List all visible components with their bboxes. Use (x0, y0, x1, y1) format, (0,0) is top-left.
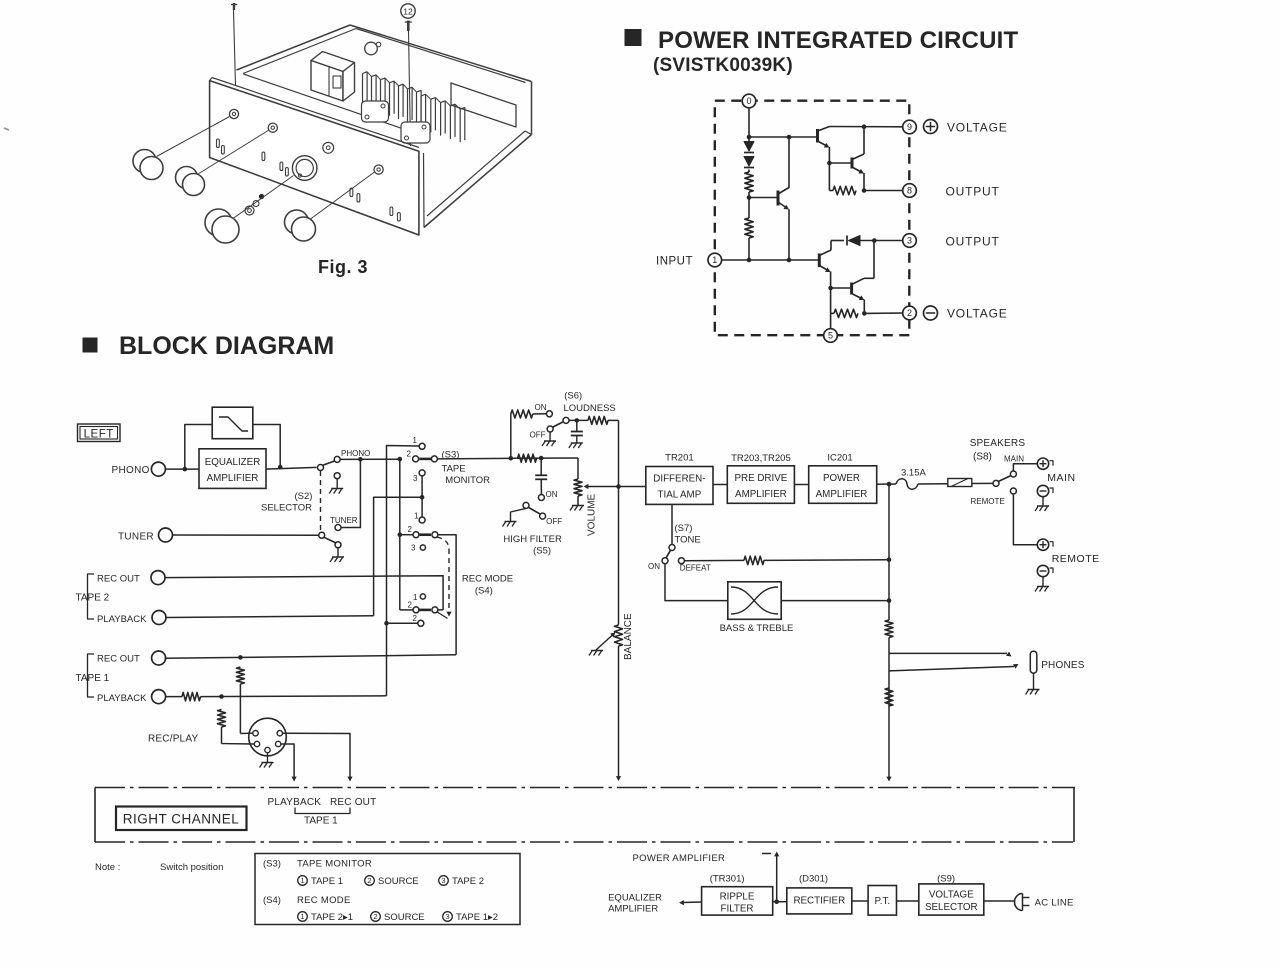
svg-text:SELECTOR: SELECTOR (261, 503, 312, 514)
svg-text:VOLTAGE: VOLTAGE (947, 121, 1008, 135)
svg-text:MAIN: MAIN (1047, 472, 1075, 484)
svg-text:OFF: OFF (530, 431, 546, 440)
svg-text:3: 3 (413, 474, 418, 483)
svg-text:REMOTE: REMOTE (971, 497, 1005, 506)
svg-text:TIAL AMP: TIAL AMP (658, 490, 702, 501)
svg-text:REMOTE: REMOTE (1052, 553, 1100, 565)
svg-text:TAPE 1: TAPE 1 (311, 876, 343, 887)
svg-text:REC/PLAY: REC/PLAY (148, 734, 198, 745)
svg-text:DEFEAT: DEFEAT (680, 564, 711, 573)
svg-text:1: 1 (300, 876, 304, 885)
svg-text:1: 1 (414, 512, 419, 521)
svg-text:TUNER: TUNER (118, 532, 154, 543)
svg-text:(TR301): (TR301) (710, 874, 745, 885)
svg-text:(S4): (S4) (263, 895, 281, 906)
svg-text:OUTPUT: OUTPUT (946, 235, 1000, 249)
svg-text:P.T.: P.T. (874, 896, 890, 907)
svg-text:AMPLIFIER: AMPLIFIER (207, 473, 259, 484)
svg-text:TONE: TONE (675, 535, 701, 546)
svg-text:(SVISTK0039K): (SVISTK0039K) (653, 55, 793, 76)
svg-text:(S7): (S7) (675, 523, 693, 534)
svg-text:1: 1 (413, 436, 418, 445)
svg-text:REC OUT: REC OUT (97, 574, 140, 585)
svg-text:PHONO: PHONO (341, 449, 370, 458)
svg-text:SELECTOR: SELECTOR (925, 902, 978, 913)
svg-text:TR201: TR201 (665, 453, 694, 464)
svg-text:TAPE MONITOR: TAPE MONITOR (297, 859, 372, 870)
svg-text:(D301): (D301) (799, 874, 828, 885)
svg-text:MONITOR: MONITOR (445, 475, 490, 486)
svg-text:PLAYBACK: PLAYBACK (97, 614, 147, 625)
svg-text:RIGHT CHANNEL: RIGHT CHANNEL (123, 812, 240, 827)
svg-text:2: 2 (408, 525, 413, 534)
svg-text:REC OUT: REC OUT (97, 654, 140, 665)
svg-text:(S3): (S3) (263, 859, 281, 870)
svg-text:TAPE 2: TAPE 2 (452, 876, 484, 887)
svg-text:SOURCE: SOURCE (384, 912, 425, 923)
svg-text:OUTPUT: OUTPUT (946, 185, 1000, 199)
svg-text:SPEAKERS: SPEAKERS (970, 438, 1026, 449)
svg-text:(S2): (S2) (295, 491, 313, 502)
svg-text:TAPE: TAPE (442, 464, 466, 475)
svg-text:IC201: IC201 (827, 453, 852, 464)
svg-text:1: 1 (712, 255, 717, 265)
svg-text:TAPE 2: TAPE 2 (76, 593, 110, 604)
svg-text:TAPE 2▸1: TAPE 2▸1 (311, 912, 353, 923)
svg-text:AMPLIFIER: AMPLIFIER (816, 489, 868, 500)
svg-text:2: 2 (367, 876, 371, 885)
svg-text:SOURCE: SOURCE (378, 876, 419, 887)
svg-text:AMPLIFIER: AMPLIFIER (735, 489, 787, 500)
svg-text:POWER: POWER (823, 473, 860, 484)
svg-text:TAPE 1: TAPE 1 (304, 816, 338, 827)
svg-text:5: 5 (828, 331, 833, 341)
svg-text:Fig. 3: Fig. 3 (318, 257, 368, 277)
svg-text:POWER AMPLIFIER: POWER AMPLIFIER (633, 853, 726, 864)
svg-text:TR203,TR205: TR203,TR205 (731, 453, 791, 464)
svg-text:OFF: OFF (546, 517, 562, 526)
svg-text:BALANCE: BALANCE (623, 613, 634, 660)
svg-text:FILTER: FILTER (720, 904, 753, 915)
svg-text:PRE DRIVE: PRE DRIVE (734, 473, 787, 484)
svg-text:AC LINE: AC LINE (1035, 898, 1074, 909)
svg-text:1: 1 (300, 912, 304, 921)
svg-text:(S8): (S8) (973, 452, 992, 463)
svg-text:2: 2 (407, 450, 412, 459)
svg-text:0: 0 (746, 96, 751, 106)
svg-text:AMPLIFIER: AMPLIFIER (608, 904, 658, 915)
svg-text:ON: ON (535, 403, 547, 412)
svg-text:MAIN: MAIN (1004, 455, 1024, 464)
svg-text:(S3): (S3) (442, 450, 460, 461)
svg-text:BASS & TREBLE: BASS & TREBLE (720, 623, 794, 634)
svg-text:9: 9 (907, 122, 912, 132)
svg-text:TUNER: TUNER (330, 516, 358, 525)
svg-text:TAPE 1▸2: TAPE 1▸2 (456, 912, 498, 923)
svg-text:REC MODE: REC MODE (462, 574, 513, 585)
svg-text:HIGH FILTER: HIGH FILTER (503, 534, 562, 545)
svg-text:8: 8 (907, 186, 912, 196)
svg-text:RIPPLE: RIPPLE (720, 892, 755, 903)
svg-text:Note :: Note : (95, 862, 120, 873)
svg-text:RECTIFIER: RECTIFIER (793, 896, 845, 907)
svg-text:EQUALIZER: EQUALIZER (205, 457, 261, 468)
svg-text:(S5): (S5) (533, 546, 551, 557)
svg-text:POWER INTEGRATED CIRCUIT: POWER INTEGRATED CIRCUIT (658, 27, 1018, 54)
svg-text:12: 12 (403, 7, 413, 17)
svg-text:ON: ON (546, 490, 558, 499)
svg-text:(S4): (S4) (475, 586, 493, 597)
svg-text:3: 3 (445, 912, 449, 921)
svg-text:EQUALIZER: EQUALIZER (608, 893, 662, 904)
svg-text:2: 2 (907, 308, 912, 318)
svg-text:3: 3 (441, 876, 445, 885)
svg-text:TAPE 1: TAPE 1 (76, 673, 110, 684)
svg-text:REC MODE: REC MODE (297, 895, 351, 906)
svg-text:INPUT: INPUT (656, 256, 693, 268)
svg-text:PHONO: PHONO (112, 465, 150, 476)
svg-text:VOLUME: VOLUME (587, 493, 598, 536)
svg-text:(S6): (S6) (564, 391, 582, 402)
svg-text:LEFT: LEFT (84, 429, 114, 441)
svg-text:VOLTAGE: VOLTAGE (947, 307, 1008, 321)
svg-text:VOLTAGE: VOLTAGE (929, 890, 974, 901)
svg-text:Switch position: Switch position (160, 862, 223, 873)
svg-text:1: 1 (413, 593, 418, 602)
svg-text:PLAYBACK: PLAYBACK (268, 797, 322, 808)
svg-text:PHONES: PHONES (1041, 660, 1085, 671)
svg-text:2: 2 (373, 912, 377, 921)
svg-text:3: 3 (907, 236, 912, 246)
svg-text:BLOCK DIAGRAM: BLOCK DIAGRAM (119, 332, 334, 360)
svg-text:DIFFEREN-: DIFFEREN- (653, 474, 705, 485)
svg-text:2: 2 (408, 601, 413, 610)
svg-text:REC OUT: REC OUT (330, 797, 376, 808)
svg-text:ON: ON (648, 562, 660, 571)
svg-text:PLAYBACK: PLAYBACK (97, 693, 147, 704)
svg-text:3.15A: 3.15A (901, 468, 926, 479)
svg-text:LOUDNESS: LOUDNESS (564, 403, 616, 414)
svg-text:(S9): (S9) (937, 874, 955, 885)
svg-text:3: 3 (411, 544, 416, 553)
svg-text:2: 2 (413, 614, 418, 623)
